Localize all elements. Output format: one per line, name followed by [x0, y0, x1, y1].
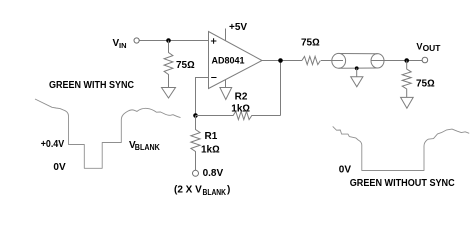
resistor 75ohm termination (vertical): [402, 61, 411, 98]
svg-text:75Ω: 75Ω: [176, 60, 195, 71]
coax ground stem: [356, 68, 358, 77]
VOUT terminal: [422, 57, 428, 63]
node: VOUT junction: [404, 58, 409, 63]
svg-text:): ): [227, 185, 230, 196]
op-amp +input sign: [211, 38, 217, 44]
ground (input): [162, 88, 176, 99]
svg-text:1kΩ: 1kΩ: [201, 145, 220, 156]
wire: op-amp output: [262, 60, 302, 62]
svg-text:BLANK: BLANK: [135, 143, 160, 152]
svg-text:OUT: OUT: [423, 44, 441, 53]
svg-text:BLANK: BLANK: [203, 188, 227, 197]
wire: output junction down to R2: [280, 61, 282, 116]
wire: resistor to coax: [321, 60, 343, 62]
svg-text:(2 X V: (2 X V: [174, 185, 202, 196]
ground (coax shield): [351, 77, 363, 87]
svg-text:0V: 0V: [339, 165, 352, 176]
svg-text:1kΩ: 1kΩ: [231, 104, 250, 115]
svg-text:+5V: +5V: [229, 22, 247, 33]
coax cable right circle: [371, 54, 384, 68]
ground (op-amp): [220, 88, 232, 100]
resistor R1 1k (vertical): [191, 116, 200, 171]
coax cable bottom line: [339, 67, 378, 69]
svg-text:IN: IN: [119, 41, 127, 50]
wire: VIN to op-amp +input: [139, 40, 208, 42]
op-amp -input sign: [211, 77, 216, 79]
waveform: green with sync: [35, 99, 181, 168]
svg-text:0V: 0V: [53, 162, 66, 173]
resistor 75ohm input (vertical): [164, 41, 173, 88]
svg-text:75Ω: 75Ω: [416, 79, 435, 90]
svg-text:R2: R2: [235, 92, 248, 103]
node: output junction: [278, 58, 283, 63]
waveform: green without sync: [333, 126, 470, 170]
node: input junction: [166, 38, 171, 43]
svg-text:GREEN WITH SYNC: GREEN WITH SYNC: [49, 80, 134, 91]
VIN terminal: [134, 38, 139, 43]
+5V supply stem: [225, 29, 227, 41]
svg-text:75Ω: 75Ω: [301, 38, 320, 49]
coax cable left circle: [332, 53, 346, 68]
resistor R2 1k (horizontal feedback): [196, 111, 281, 119]
resistor 75ohm series (horizontal): [302, 56, 321, 64]
ground (termination): [401, 97, 414, 108]
svg-text:+0.4V: +0.4V: [41, 139, 65, 150]
wire: coax to VOUT terminal: [371, 60, 422, 62]
node: feedback junction: [193, 113, 198, 118]
svg-text:0.8V: 0.8V: [203, 168, 224, 179]
wire: -input to feedback node: [196, 78, 209, 116]
0.8V terminal: [193, 170, 199, 176]
coax shield tap dot: [355, 66, 359, 70]
svg-text:R1: R1: [205, 131, 218, 142]
svg-text:GREEN WITHOUT SYNC: GREEN WITHOUT SYNC: [350, 178, 455, 189]
op-amp U1 AD8041 body: [209, 32, 263, 89]
coax cable top line: [339, 53, 378, 55]
svg-text:AD8041: AD8041: [212, 55, 245, 65]
op-amp ground stem: [225, 80, 227, 88]
